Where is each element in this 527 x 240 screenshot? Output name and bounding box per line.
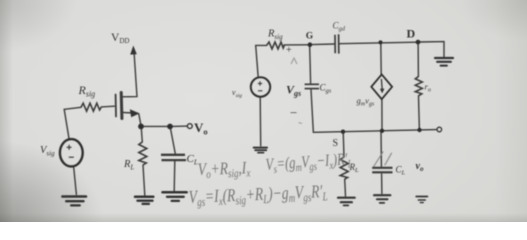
svg-text:Vo+Rsig,Ix: Vo+Rsig,Ix [197,159,250,182]
svg-text:ro: ro [425,82,431,94]
svg-text:Vs=(gmVgs−Ix)R′L: Vs=(gmVgs−Ix)R′L [265,150,353,176]
svg-text:Cgs: Cgs [320,83,332,95]
svg-text:Vgs=Ix(Rsig+RL)−gmVgsR′L: Vgs=Ix(Rsig+RL)−gmVgsR′L [188,182,328,210]
svg-text:gmvgs: gmvgs [357,96,375,108]
svg-text:vo: vo [416,161,424,173]
svg-text:Rsig: Rsig [78,83,96,99]
svg-text:−: − [290,105,297,120]
svg-text:Vo: Vo [194,120,208,137]
svg-text:Vsig: Vsig [40,145,55,158]
svg-text:Vgs: Vgs [286,83,301,99]
svg-text:G: G [306,32,314,42]
svg-text:VDD: VDD [111,32,129,45]
svg-text:vsig: vsig [232,88,242,99]
svg-text:S: S [333,138,339,149]
svg-text:RL: RL [123,159,134,172]
svg-text:Cgd: Cgd [333,21,346,33]
svg-text:D: D [407,27,416,41]
svg-text:Rsig: Rsig [267,29,283,42]
svg-text:CL: CL [396,165,406,177]
svg-text:CL: CL [187,153,199,167]
svg-text:+: + [286,45,292,56]
